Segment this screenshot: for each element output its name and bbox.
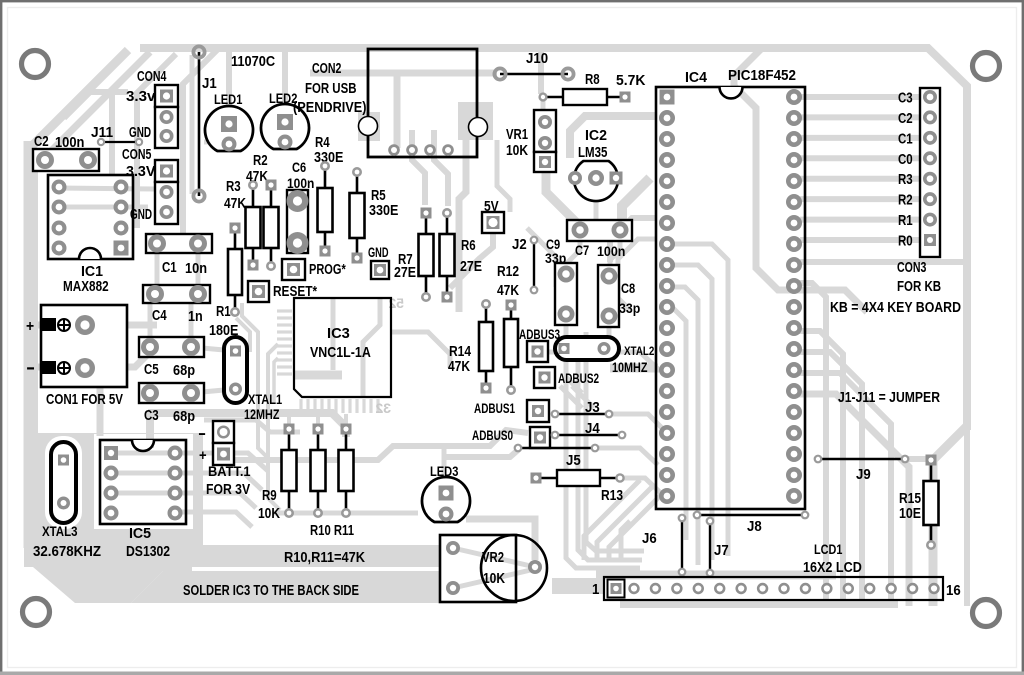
- note KB: [830, 300, 961, 316]
- svg-text:FOR 3V: FOR 3V: [206, 482, 250, 498]
- svg-text:68p: 68p: [173, 363, 195, 379]
- copper pour right of VR2: [552, 578, 604, 594]
- svg-text:3.3V: 3.3V: [126, 164, 156, 180]
- svg-text:R0: R0: [898, 234, 913, 250]
- svg-text:11070C: 11070C: [231, 54, 276, 70]
- wire trace R13 ic4: [620, 478, 665, 497]
- svg-text:330E: 330E: [369, 203, 399, 219]
- IC socket IC4 PIC18F452: [656, 67, 805, 509]
- wire trace lcd h1: [596, 575, 898, 604]
- pad PROG: [282, 259, 346, 280]
- svg-text:100n: 100n: [55, 135, 84, 151]
- wire trace ic3 lcd 1: [584, 480, 652, 560]
- svg-text:R15: R15: [899, 491, 921, 507]
- watermark S2: [388, 295, 404, 311]
- wire trace ic3 lcd 2: [609, 493, 663, 560]
- wire trace right v1: [794, 262, 963, 606]
- mounting hole bottom-left: [23, 599, 50, 626]
- svg-text:VR2: VR2: [482, 550, 504, 566]
- IC3 left pin comb: [277, 311, 292, 374]
- jumper J11: [91, 125, 143, 146]
- resistor R3: [224, 179, 261, 271]
- wire trace R15 down: [929, 548, 934, 574]
- note R10R11: [284, 550, 365, 566]
- svg-text:16X2 LCD: 16X2 LCD: [803, 560, 862, 576]
- svg-text:3.3v: 3.3v: [126, 89, 155, 105]
- jumper J6: [642, 514, 686, 577]
- svg-text:10E: 10E: [899, 506, 921, 522]
- svg-text:ADBUS3: ADBUS3: [519, 327, 560, 342]
- svg-text:R10,R11=47K: R10,R11=47K: [284, 550, 365, 566]
- svg-text:J11: J11: [91, 125, 113, 141]
- note solder: [183, 583, 359, 599]
- wire trace to R7R6 diag2: [527, 228, 556, 287]
- wire trace CON45 right: [183, 49, 218, 245]
- mounting hole top-right: [973, 53, 1000, 80]
- svg-text:47K: 47K: [246, 169, 268, 185]
- svg-text:IC3: IC3: [327, 325, 350, 342]
- svg-text:CON2: CON2: [312, 61, 341, 77]
- resistor R5: [350, 167, 399, 264]
- mounting hole bottom-right: [973, 600, 1000, 627]
- svg-text:C1: C1: [162, 260, 177, 276]
- wire trace right v3: [794, 373, 909, 606]
- capacitor C8: [598, 265, 640, 327]
- svg-text:5.7K: 5.7K: [616, 73, 646, 89]
- pad RESET: [248, 281, 317, 302]
- svg-text:33p: 33p: [619, 300, 640, 316]
- resistor R1: [209, 223, 242, 340]
- trimmer VR2: [440, 535, 547, 602]
- wire trace mid bundle 2: [204, 420, 300, 432]
- wire trace ADBUS3 ic4: [548, 352, 660, 371]
- battery BATT.1: [198, 421, 251, 498]
- svg-text:GND: GND: [368, 245, 389, 260]
- wire trace cap col 2: [155, 253, 160, 285]
- svg-text:ADBUS0: ADBUS0: [472, 428, 513, 443]
- IC3 bottom pin comb: [301, 399, 378, 413]
- wire trace IC1 h2: [58, 205, 148, 210]
- connector CON1: [26, 305, 127, 408]
- copper pour left band: [24, 148, 38, 520]
- svg-text:100n: 100n: [287, 176, 314, 191]
- wire trace ADBUS2 ic4: [566, 355, 582, 393]
- svg-text:J5: J5: [566, 453, 581, 469]
- pad ADBUS0: [472, 427, 550, 448]
- wire trace IC3 left f2: [268, 344, 280, 510]
- svg-text:C0: C0: [898, 152, 913, 168]
- wire trace CON2 below2: [459, 130, 510, 312]
- wire trace IC3 int B: [295, 371, 342, 380]
- svg-text:R9: R9: [262, 488, 277, 504]
- wire trace right v2: [794, 331, 862, 606]
- svg-text:10K: 10K: [483, 571, 505, 587]
- svg-text:C4: C4: [152, 308, 167, 324]
- svg-text:J6: J6: [642, 531, 657, 547]
- wire trace IC4 int 1: [666, 244, 728, 556]
- wire trace lcd h2: [566, 322, 644, 568]
- wire trace CON1 down: [97, 386, 104, 436]
- svg-text:LED1: LED1: [214, 91, 243, 107]
- IC socket IC1: [48, 175, 133, 295]
- svg-text:PIC18F452: PIC18F452: [728, 67, 796, 84]
- svg-text:C3: C3: [898, 91, 913, 107]
- svg-text:DS1302: DS1302: [126, 544, 170, 560]
- capacitor C3: [139, 383, 204, 425]
- copper pour bottom-left block: [24, 433, 203, 567]
- svg-text:C3: C3: [144, 408, 159, 424]
- VR2 body fill: [440, 535, 547, 602]
- svg-text:IC2: IC2: [585, 128, 607, 144]
- svg-text:LCD1: LCD1: [814, 541, 843, 557]
- resistor R10: [311, 424, 326, 519]
- label 11070C: [231, 54, 276, 70]
- resistor R4: [314, 135, 344, 257]
- svg-text:CON1 FOR 5V: CON1 FOR 5V: [46, 391, 123, 408]
- resistor R7: [394, 208, 434, 303]
- pour clearance XTAL3: [45, 436, 82, 529]
- IC1 body fill: [48, 175, 133, 259]
- svg-text:CON4: CON4: [137, 69, 166, 85]
- wire trace C9 xtal2: [568, 186, 620, 338]
- svg-text:J9: J9: [856, 467, 871, 483]
- svg-text:C1: C1: [898, 131, 913, 147]
- wire trace CON4 route: [64, 92, 128, 176]
- svg-text:R1: R1: [898, 213, 913, 229]
- svg-text:10K: 10K: [258, 506, 280, 522]
- copper pour wedge: [24, 520, 120, 603]
- pour clearance IC5: [94, 434, 193, 529]
- svg-text:C5: C5: [144, 362, 159, 378]
- svg-text:10MHZ: 10MHZ: [612, 359, 648, 375]
- svg-text:47K: 47K: [224, 196, 246, 212]
- capacitor C2: [33, 134, 99, 171]
- svg-text:GND: GND: [129, 125, 151, 141]
- IC3 body fill: [294, 298, 391, 397]
- capacitor C5: [139, 337, 204, 379]
- wire trace CON1 plus: [28, 322, 157, 329]
- pour clearance texts: [0, 0, 1, 1]
- wire trace R11 up: [344, 414, 348, 424]
- wire trace LED1 feed: [226, 50, 232, 118]
- mounting hole top-left: [22, 51, 49, 78]
- svg-text:CON3: CON3: [897, 260, 926, 276]
- resistor R12: [497, 264, 519, 395]
- svg-text:R1: R1: [216, 304, 231, 320]
- resistor R13: [531, 470, 625, 504]
- wire trace LED3 feed: [442, 447, 447, 490]
- wire trace IC3 right: [391, 332, 450, 368]
- resistor R8: [538, 72, 645, 105]
- wire trace J3 ic4: [609, 414, 665, 431]
- IC IC3: [294, 298, 391, 397]
- svg-text:LM35: LM35: [578, 145, 607, 161]
- pad ADBUS3: [519, 327, 560, 362]
- svg-text:68p: 68p: [173, 409, 195, 425]
- svg-text:KB = 4X4 KEY BOARD: KB = 4X4 KEY BOARD: [830, 300, 961, 316]
- svg-text:R2: R2: [898, 193, 913, 209]
- resistor R15: [899, 455, 939, 551]
- wire trace main top band: [140, 48, 967, 606]
- pad 5V: [482, 199, 504, 233]
- label R10 R11: [310, 523, 354, 539]
- svg-text:R5: R5: [371, 188, 386, 204]
- LED LED1: [205, 91, 253, 152]
- LCD1 body fill: [604, 577, 943, 600]
- jumper J7: [706, 517, 729, 578]
- resistor R9: [258, 424, 297, 523]
- resistor R6: [440, 208, 483, 303]
- wire trace IC4 wideL: [570, 116, 657, 158]
- capacitor C6: [287, 159, 315, 254]
- jumper J1: [199, 52, 217, 196]
- wire trace R pads row: [272, 511, 418, 516]
- svg-text:R3: R3: [226, 179, 241, 195]
- wire trace cap col 3: [189, 303, 194, 337]
- connector CON3 keyboard: [897, 88, 941, 295]
- IC socket IC5 DS1302: [100, 440, 186, 560]
- wire trace C3 xtal: [191, 390, 224, 393]
- svg-text:R2: R2: [253, 153, 268, 169]
- LED LED3: [422, 463, 470, 522]
- crystal XTAL1: [224, 337, 283, 422]
- svg-text:MAX882: MAX882: [63, 278, 109, 295]
- connector CON2 USB: [293, 49, 493, 157]
- jumper J2: [512, 236, 538, 295]
- svg-text:J7: J7: [714, 543, 729, 559]
- wire trace IC5 h2: [115, 473, 262, 490]
- connector CON4: [126, 69, 178, 148]
- wire trace IC3 left f1: [236, 303, 270, 460]
- wire trace LED1 ring link: [204, 140, 227, 145]
- svg-text:C2: C2: [898, 111, 913, 127]
- svg-text:R4: R4: [315, 135, 330, 151]
- svg-text:PROG*: PROG*: [309, 262, 346, 278]
- svg-text:J2: J2: [512, 237, 527, 253]
- wire trace C8 ic4 b1: [610, 218, 657, 262]
- capacitor C9: [545, 236, 577, 325]
- svg-text:C2: C2: [34, 134, 49, 150]
- wire trace R8 left v: [541, 97, 546, 112]
- wire trace IC4 int 2: [666, 265, 712, 560]
- wire trace notch feed: [734, 48, 867, 312]
- wire trace R6 down: [560, 368, 658, 408]
- svg-text:47K: 47K: [448, 359, 470, 375]
- svg-text:VR1: VR1: [506, 127, 528, 143]
- svg-text:XTAL1: XTAL1: [248, 392, 283, 407]
- svg-text:(PENDRIVE): (PENDRIVE): [293, 100, 367, 116]
- svg-text:C6: C6: [292, 159, 306, 175]
- svg-text:SOLDER IC3 TO THE BACK SIDE: SOLDER IC3 TO THE BACK SIDE: [183, 583, 359, 599]
- wire trace IC4 to CON3 row 1: [800, 94, 920, 100]
- wire trace R9 up: [287, 414, 291, 424]
- copper pour band connector: [33, 567, 192, 603]
- resistor R11: [339, 424, 354, 519]
- svg-text:-: -: [198, 425, 206, 442]
- svg-text:32: 32: [375, 400, 391, 416]
- wire trace IC4 to CON3 row 8: [800, 237, 920, 243]
- svg-text:C8: C8: [621, 280, 635, 296]
- wire trace LED2 feed: [282, 50, 288, 118]
- wire trace IC4 to CON3 row 7: [800, 217, 920, 223]
- capacitor C7: [567, 220, 632, 259]
- svg-text:R8: R8: [585, 72, 600, 88]
- LED LED2: [261, 90, 309, 150]
- wire trace IC1 h1: [58, 188, 156, 189]
- pad GND mid: [368, 245, 389, 279]
- capacitor C4: [143, 285, 210, 325]
- svg-text:CON5: CON5: [122, 147, 151, 163]
- wire trace long staircase: [230, 430, 528, 460]
- svg-text:BATT.1: BATT.1: [208, 463, 251, 479]
- svg-text:R14: R14: [449, 344, 471, 360]
- svg-text:IC4: IC4: [685, 70, 707, 86]
- watermark 32: [375, 400, 391, 416]
- IC4 body fill: [656, 87, 805, 509]
- wire trace left diag 2: [30, 52, 150, 172]
- svg-text:-: -: [26, 357, 35, 377]
- svg-text:LED3: LED3: [430, 463, 459, 479]
- svg-text:J8: J8: [747, 519, 762, 535]
- pad ADBUS1: [474, 400, 549, 422]
- pad ADBUS2: [534, 367, 599, 388]
- note jumpers: [838, 390, 940, 406]
- wire trace mid bundle 1: [148, 411, 346, 448]
- wire trace to R7R6 diag1: [450, 233, 493, 288]
- wire trace CON1 minus: [28, 352, 150, 367]
- capacitor C1: [146, 234, 212, 277]
- wire trace left diag 1: [29, 50, 128, 548]
- svg-text:27E: 27E: [460, 259, 482, 275]
- IC5 body fill: [100, 440, 186, 524]
- wire trace VR2 feed: [453, 519, 535, 588]
- svg-text:12MHZ: 12MHZ: [244, 406, 280, 422]
- svg-text:FOR USB: FOR USB: [305, 81, 356, 97]
- wire trace 5V down: [546, 168, 581, 227]
- svg-text:R10 R11: R10 R11: [310, 523, 354, 539]
- jumper J4: [551, 421, 627, 439]
- svg-text:XTAL2: XTAL2: [624, 344, 655, 358]
- crystal XTAL2: [555, 337, 655, 375]
- svg-text:FOR KB: FOR KB: [897, 279, 941, 295]
- svg-text:J10: J10: [526, 51, 548, 67]
- resistor R14: [448, 299, 493, 394]
- wire trace J1 shadow: [190, 55, 195, 194]
- svg-text:32.678KHZ: 32.678KHZ: [33, 544, 101, 560]
- svg-text:10n: 10n: [185, 261, 207, 277]
- wire trace J5 ic4: [443, 448, 658, 465]
- wire trace top second: [310, 70, 497, 77]
- resistor R2: [246, 153, 279, 271]
- svg-text:XTAL3: XTAL3: [42, 523, 78, 539]
- wire trace IC3 int A: [331, 299, 336, 370]
- svg-text:10K: 10K: [506, 143, 528, 159]
- svg-text:+: +: [199, 447, 207, 464]
- wire trace IC4 to CON3 row 2: [800, 114, 920, 120]
- svg-text:ADBUS2: ADBUS2: [558, 371, 599, 386]
- wire trace IC5 h1: [115, 453, 268, 471]
- wire trace CON2 inner v: [394, 76, 401, 148]
- wire trace R10 up: [316, 414, 320, 424]
- wire trace IC5 h4: [180, 512, 252, 527]
- svg-text:R13: R13: [601, 488, 623, 504]
- svg-text:16: 16: [946, 583, 961, 599]
- svg-text:ADBUS1: ADBUS1: [474, 401, 515, 416]
- wire trace to C7: [622, 178, 650, 226]
- svg-text:C7: C7: [575, 242, 589, 258]
- copper pour band solder note: [131, 571, 505, 603]
- svg-text:VNC1L-1A: VNC1L-1A: [310, 344, 371, 361]
- wire trace IC4 to CON3 row 5: [800, 176, 920, 182]
- svg-text:47K: 47K: [497, 283, 519, 299]
- jumper J9: [814, 455, 910, 483]
- jumper J8: [693, 511, 810, 535]
- wire trace J10 stub: [538, 50, 544, 94]
- svg-text:R6: R6: [461, 238, 476, 254]
- wire trace cap col 1: [196, 253, 201, 285]
- wire trace IC4 to CON3 row 6: [800, 196, 920, 202]
- svg-text:R12: R12: [497, 264, 519, 280]
- svg-text:IC5: IC5: [129, 526, 151, 542]
- jumper J3: [551, 400, 614, 418]
- copper pour band R10 row: [75, 545, 440, 567]
- connector CON5: [122, 147, 178, 224]
- svg-text:27E: 27E: [394, 265, 416, 281]
- wire trace C8 ic4 b2: [618, 239, 657, 310]
- wire trace J9 R15: [906, 456, 926, 462]
- jumper J5: [514, 444, 600, 469]
- IC IC2 LM35: [568, 128, 623, 201]
- trimmer VR1: [506, 110, 556, 172]
- connector LCD1 header: [592, 541, 961, 600]
- wire trace C5 xtal: [191, 347, 224, 350]
- wire trace IC4 to CON3 row 4: [800, 155, 920, 161]
- svg-text:+: +: [26, 318, 34, 335]
- svg-text:R3: R3: [898, 172, 913, 188]
- wire trace CON2 below: [412, 130, 448, 206]
- wire trace IC5 h3: [115, 493, 256, 508]
- svg-text:1n: 1n: [188, 309, 203, 325]
- svg-text:1: 1: [592, 582, 599, 598]
- wire trace cap col 4: [148, 303, 153, 337]
- crystal XTAL3: [33, 442, 101, 560]
- wire trace IC3 int C: [363, 299, 380, 396]
- pad J1 bottom: [193, 190, 204, 201]
- wire trace IC4 int 3: [666, 287, 698, 565]
- wire trace IC4 to CON3 row 3: [800, 135, 920, 141]
- wire trace left diag 3: [137, 54, 176, 228]
- jumper J10: [494, 51, 573, 80]
- svg-text:J1-J11 = JUMPER: J1-J11 = JUMPER: [838, 390, 940, 406]
- pad J1 top: [193, 46, 204, 57]
- svg-text:J1: J1: [202, 76, 217, 92]
- wire trace VR1 low: [546, 150, 552, 172]
- svg-text:100n: 100n: [597, 243, 625, 259]
